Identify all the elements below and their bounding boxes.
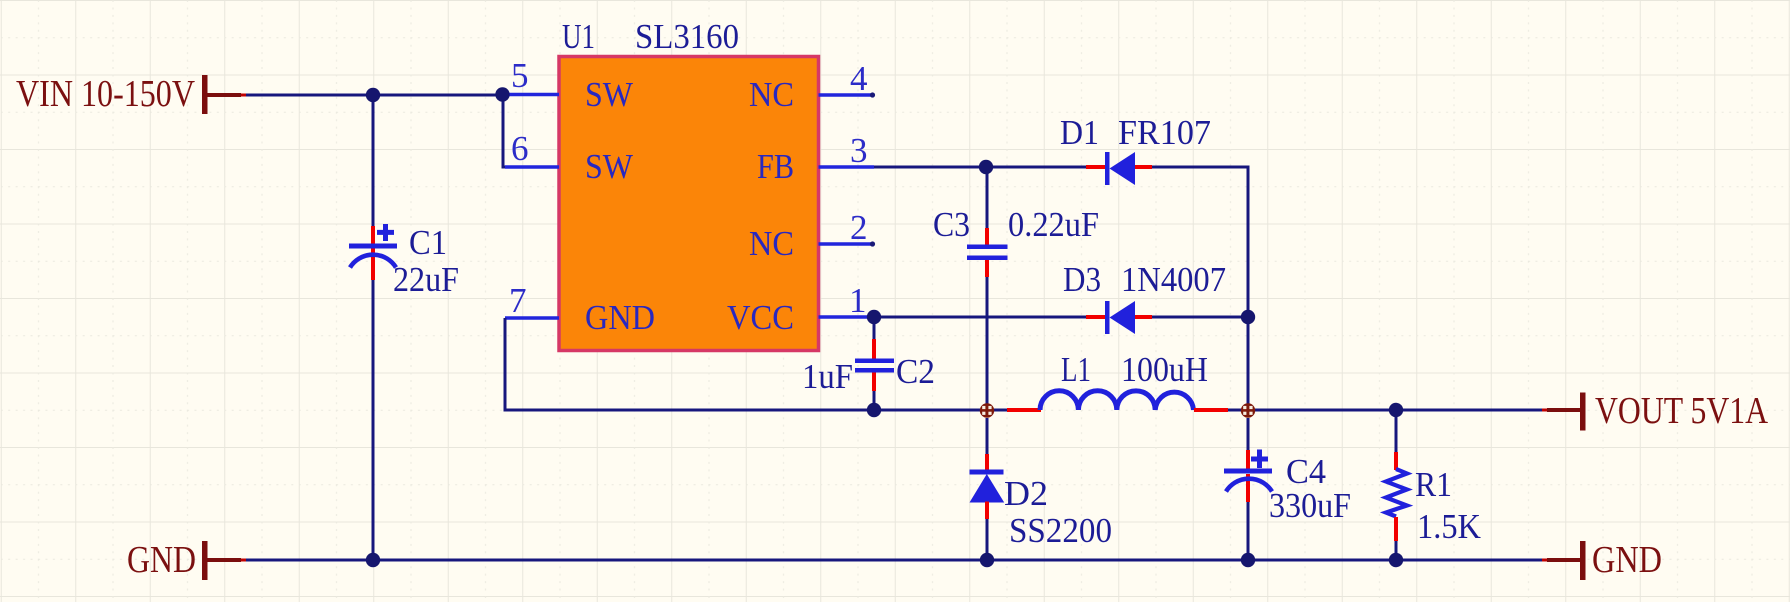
svg-text:5: 5 (511, 56, 529, 95)
svg-text:7: 7 (509, 281, 527, 320)
junction R1/GND (1389, 553, 1403, 567)
pin 7 GND (505, 281, 655, 337)
port VIN 10-150V (16, 73, 246, 115)
svg-text:1: 1 (849, 281, 867, 320)
svg-text:2: 2 (850, 208, 868, 247)
IC U1 SL3160 body (559, 17, 819, 351)
pin 5 SW (503, 56, 633, 114)
wire VIN net: port to pin5 (246, 94, 503, 97)
wire D1 to right corner down (1152, 167, 1248, 411)
svg-text:GND: GND (1592, 539, 1662, 581)
svg-text:L1: L1 (1061, 350, 1091, 389)
svg-text:1N4007: 1N4007 (1121, 260, 1226, 299)
wire VIN to pin6 corner (503, 95, 506, 167)
pin 4 NC (749, 59, 875, 114)
wire C1 drop (VIN to C1) (372, 95, 375, 226)
wire C1 to GND rail (372, 280, 375, 560)
svg-text:C2: C2 (896, 352, 935, 391)
svg-text:GND: GND (127, 539, 196, 581)
svg-text:330uF: 330uF (1269, 486, 1351, 525)
no-ERC marker right (VOUT node) (1241, 403, 1255, 417)
svg-text:FB: FB (757, 147, 794, 186)
junction VIN/C1 (366, 88, 380, 102)
svg-text:C3: C3 (933, 205, 970, 244)
svg-text:VCC: VCC (727, 298, 794, 337)
diode D2 SS2200 (970, 418, 1113, 560)
svg-text:NC: NC (749, 75, 794, 114)
wire switch net: pin7 down and right (505, 318, 985, 410)
wire FB net pin3 to D1 (874, 166, 1086, 169)
svg-text:22uF: 22uF (393, 260, 459, 299)
svg-text:VOUT 5V1A: VOUT 5V1A (1595, 390, 1768, 432)
svg-text:1uF: 1uF (802, 357, 853, 396)
port GND left (127, 539, 246, 581)
svg-text:SW: SW (585, 147, 633, 186)
port VOUT 5V1A (1542, 390, 1768, 432)
svg-text:GND: GND (585, 298, 655, 337)
svg-text:6: 6 (511, 129, 529, 168)
diode D3 1N4007 (1063, 260, 1226, 334)
junction R1/VOUT (1389, 403, 1403, 417)
svg-text:D1: D1 (1060, 113, 1099, 152)
pin 1 VCC (727, 281, 874, 337)
pin 2 NC (749, 208, 875, 263)
junction D2/GND (980, 553, 994, 567)
capacitor C1 (349, 223, 459, 299)
wire VOUT net: L1 to port (1243, 409, 1542, 412)
svg-text:SS2200: SS2200 (1009, 511, 1112, 550)
svg-text:0.22uF: 0.22uF (1008, 205, 1099, 244)
junction C2/switch net (867, 403, 881, 417)
port GND right (1542, 539, 1662, 581)
capacitor C3 (933, 167, 1099, 404)
wire D3 to vertical (1152, 316, 1248, 319)
svg-text:R1: R1 (1415, 465, 1452, 504)
svg-text:4: 4 (850, 59, 868, 98)
capacitor C2 (802, 317, 935, 410)
diode D1 FR107 (1060, 113, 1211, 185)
svg-text:SW: SW (585, 75, 633, 114)
svg-text:D3: D3 (1063, 260, 1101, 299)
junction D3/vertical (1241, 310, 1255, 324)
resistor R1 1.5K (1386, 410, 1481, 560)
svg-text:3: 3 (850, 131, 868, 170)
svg-text:VIN 10-150V: VIN 10-150V (16, 73, 195, 115)
junction C4/GND (1241, 553, 1255, 567)
svg-text:D2: D2 (1004, 474, 1048, 513)
pin 6 SW (505, 129, 633, 186)
junction VIN/pin5 (495, 87, 509, 101)
no-ERC marker left (switch node) (980, 403, 994, 417)
svg-text:U1: U1 (562, 17, 595, 56)
junction C1/GND (366, 553, 380, 567)
svg-text:FR107: FR107 (1118, 113, 1211, 152)
wire GND rail (246, 559, 1542, 562)
svg-text:SL3160: SL3160 (635, 17, 739, 56)
svg-text:100uH: 100uH (1121, 350, 1208, 389)
pin 3 FB (757, 131, 874, 186)
svg-text:1.5K: 1.5K (1417, 507, 1481, 546)
junction VCC/C2 (867, 310, 881, 324)
svg-text:C1: C1 (409, 223, 447, 262)
junction FB/C3 (979, 160, 993, 174)
svg-text:NC: NC (749, 224, 794, 263)
inductor L1 100uH (991, 350, 1243, 410)
wire VCC net pin1 to D3 (874, 316, 1086, 319)
capacitor C4 (1224, 418, 1351, 560)
